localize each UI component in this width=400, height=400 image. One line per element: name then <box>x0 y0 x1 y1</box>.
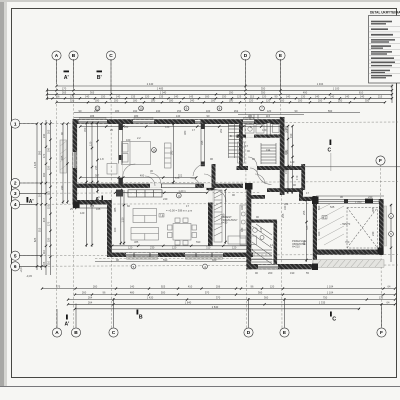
svg-text:1 464: 1 464 <box>317 82 324 86</box>
svg-text:265: 265 <box>62 90 67 94</box>
svg-text:380: 380 <box>183 130 187 135</box>
window sill bottom w1 <box>127 257 158 259</box>
furniture bathroom fixtures <box>238 125 280 164</box>
wall wc small horizontal <box>251 220 277 223</box>
svg-text:120: 120 <box>259 227 263 232</box>
svg-text:160: 160 <box>280 98 285 102</box>
svg-text:525: 525 <box>330 205 335 209</box>
wall interior vertical 1 <box>119 124 136 184</box>
svg-text:120: 120 <box>267 109 272 113</box>
wall vestibule corner <box>299 188 303 201</box>
svg-text:180: 180 <box>229 98 234 102</box>
wall interior vertical 4 (bath) <box>239 124 243 166</box>
wall left exterior <box>73 119 78 204</box>
furniture dining table with chairs <box>168 218 197 245</box>
svg-text:110: 110 <box>42 249 46 254</box>
svg-text:200: 200 <box>298 98 303 102</box>
svg-text:A': A' <box>64 75 69 81</box>
svg-text:240: 240 <box>371 231 375 236</box>
grid bubble 1 left <box>11 119 20 128</box>
window gap top wall 1 <box>79 120 108 123</box>
svg-text:590: 590 <box>163 258 168 262</box>
svg-text:322: 322 <box>178 174 183 178</box>
svg-text:C: C <box>109 53 113 59</box>
left outside chain x63-67 <box>63 124 68 204</box>
svg-text:6: 6 <box>14 264 17 270</box>
svg-text:A: A <box>55 330 59 336</box>
grid dashed vertical line F <box>381 164 382 328</box>
furniture desk room A <box>107 164 117 175</box>
svg-text:170: 170 <box>47 221 51 226</box>
wall interior main horizontal <box>77 184 243 188</box>
door gap interior main 2 <box>204 184 214 188</box>
svg-text:420: 420 <box>212 258 217 262</box>
svg-text:7.8: 7.8 <box>160 213 164 217</box>
right wall dim chains <box>284 125 293 194</box>
wall hall right <box>313 196 317 270</box>
svg-text:365: 365 <box>90 90 95 94</box>
svg-text:B: B <box>72 53 76 59</box>
right side small dimension group <box>389 204 394 262</box>
svg-text:1 040: 1 040 <box>160 90 167 94</box>
svg-text:1.8: 1.8 <box>100 157 104 161</box>
wall interior vertical 3 <box>212 164 216 188</box>
window marker circle 1 <box>95 106 100 111</box>
junction blob separation/kitchen wall <box>207 184 215 191</box>
window gap top wall 2 <box>133 120 154 123</box>
svg-text:264: 264 <box>88 300 93 304</box>
svg-text:200: 200 <box>338 98 343 102</box>
wall step bottom-left <box>73 200 111 205</box>
building outer walls <box>73 117 387 270</box>
door gap interior main 1 <box>150 184 161 188</box>
entry porch marks <box>250 115 258 120</box>
door arc room D2 <box>191 178 201 188</box>
staircase treads entry <box>261 143 276 164</box>
svg-text:103: 103 <box>38 192 42 197</box>
svg-text:130: 130 <box>320 252 325 256</box>
top chain numbers <box>57 82 383 102</box>
wall hall left <box>247 185 252 269</box>
svg-text:170: 170 <box>62 86 67 90</box>
svg-text:590: 590 <box>317 205 321 210</box>
svg-text:1 50: 1 50 <box>120 217 124 223</box>
window gap top wall 3 <box>195 120 201 123</box>
svg-text:365: 365 <box>371 207 375 212</box>
section marker B' top <box>97 71 103 82</box>
svg-text:140: 140 <box>130 285 135 289</box>
svg-text:-0,45: -0,45 <box>26 274 32 278</box>
door arc room C <box>193 164 205 176</box>
svg-text:595: 595 <box>170 150 174 155</box>
svg-text:260: 260 <box>93 285 98 289</box>
door gap bath horizontal <box>246 135 254 138</box>
svg-text:100: 100 <box>248 114 253 118</box>
scanner edge left strip <box>0 0 4 387</box>
svg-text:140: 140 <box>286 94 291 98</box>
title block border <box>369 16 400 84</box>
step wall dim row <box>75 204 109 209</box>
svg-text:262: 262 <box>124 125 129 129</box>
basement stairs hatch in hall <box>252 224 272 264</box>
svg-text:525: 525 <box>305 225 309 230</box>
svg-text:200: 200 <box>114 98 119 102</box>
svg-text:255: 255 <box>302 210 306 215</box>
wall garage top <box>313 199 379 203</box>
svg-text:480: 480 <box>130 291 135 295</box>
svg-text:120: 120 <box>88 141 92 146</box>
grid bubble 6 left <box>11 262 20 271</box>
furniture wc fixtures hall <box>250 228 264 245</box>
inner top mini dimension rows <box>74 113 360 118</box>
garage footing hatched band <box>313 260 384 268</box>
svg-text:190: 190 <box>42 172 46 177</box>
svg-text:194: 194 <box>266 148 271 152</box>
svg-text:115: 115 <box>266 114 271 118</box>
svg-text:1 420: 1 420 <box>147 296 154 300</box>
svg-text:120: 120 <box>232 246 237 250</box>
svg-text:~ 595/70: ~ 595/70 <box>340 222 351 226</box>
svg-text:15: 15 <box>152 148 156 152</box>
svg-text:1 104: 1 104 <box>327 285 334 289</box>
grid bubble 4 left <box>11 200 20 209</box>
staircase treads <box>229 124 241 159</box>
svg-text:240: 240 <box>42 133 46 138</box>
grid dashed horizontal line 1 <box>19 122 398 124</box>
entry canopy line top right <box>238 114 304 116</box>
svg-text:262: 262 <box>234 109 239 113</box>
svg-text:120: 120 <box>262 94 267 98</box>
grid dashed vertical line B <box>73 59 75 328</box>
svg-text:170: 170 <box>42 153 46 158</box>
svg-text:110: 110 <box>47 260 51 265</box>
svg-text:360: 360 <box>258 291 263 295</box>
furniture kitchen counter <box>214 190 247 245</box>
svg-text:500: 500 <box>161 291 166 295</box>
svg-text:120: 120 <box>70 94 75 98</box>
svg-text:120: 120 <box>172 246 177 250</box>
grid dashed vertical line E <box>281 59 283 328</box>
window sill bottom w2 <box>186 257 223 259</box>
svg-text:385: 385 <box>289 164 293 169</box>
svg-text:150: 150 <box>177 109 182 113</box>
window sill top w4 <box>244 117 254 119</box>
window gap top wall 4 <box>243 120 254 123</box>
wall bath partition vertical <box>267 123 270 138</box>
svg-text:120: 120 <box>165 125 170 129</box>
svg-text:560: 560 <box>222 213 226 218</box>
svg-text:B: B <box>230 134 232 138</box>
furniture fireplace <box>116 190 123 197</box>
door arc room B <box>145 176 155 186</box>
corridor door arcs extra <box>150 157 265 184</box>
wall hall internal vertical <box>274 221 278 265</box>
wall vestibule south <box>267 188 301 192</box>
svg-text:140: 140 <box>116 94 121 98</box>
svg-text:206: 206 <box>216 285 221 289</box>
section marker A centre plan <box>95 196 103 204</box>
wall bath horizontal <box>237 135 282 138</box>
door arc bath <box>250 168 258 176</box>
svg-text:A: A <box>55 53 59 59</box>
window marker circle 4 <box>217 106 222 111</box>
svg-text:120: 120 <box>270 285 275 289</box>
svg-text:1 100: 1 100 <box>333 86 340 90</box>
svg-text:140: 140 <box>85 94 90 98</box>
svg-text:150: 150 <box>284 169 288 174</box>
grid bubble A bottom <box>52 328 61 337</box>
svg-text:415: 415 <box>42 217 46 222</box>
grid dashed horizontal line 2 <box>19 182 398 184</box>
svg-text:590: 590 <box>328 109 333 113</box>
svg-text:240: 240 <box>163 197 168 201</box>
svg-text:D: D <box>247 330 251 336</box>
svg-text:140: 140 <box>360 94 365 98</box>
interior vertical mini chains left of rooms <box>87 123 98 247</box>
svg-text:180: 180 <box>240 227 244 232</box>
hollow segment main wall <box>162 184 196 188</box>
junction blob hall top-left <box>245 183 253 190</box>
svg-text:1 104: 1 104 <box>327 291 334 295</box>
interior mini dimension texture rows <box>83 125 362 244</box>
wardrobe room C <box>165 143 172 168</box>
svg-text:C: C <box>332 317 336 323</box>
garage cross brace X <box>347 208 378 249</box>
svg-text:385: 385 <box>113 207 117 212</box>
svg-text:590: 590 <box>196 240 201 244</box>
interior walls <box>77 123 384 270</box>
window sill top w1 <box>80 117 107 119</box>
svg-text:262: 262 <box>284 125 288 130</box>
svg-text:120: 120 <box>128 246 133 250</box>
section marker A' bottom <box>65 315 70 328</box>
svg-text:150: 150 <box>47 165 51 170</box>
svg-text:155: 155 <box>47 204 51 209</box>
grid bubble C bottom <box>109 328 118 337</box>
kitchen note text <box>221 215 238 225</box>
svg-text:150: 150 <box>101 94 106 98</box>
section marker C' right <box>328 140 332 172</box>
svg-text:310: 310 <box>206 246 211 250</box>
grid dashed vertical line D <box>246 59 247 328</box>
svg-text:F: F <box>379 158 382 164</box>
svg-text:350: 350 <box>365 98 370 102</box>
grid bubble B bottom <box>71 328 80 337</box>
svg-text:335: 335 <box>200 140 204 145</box>
svg-text:610: 610 <box>359 90 364 94</box>
svg-text:360: 360 <box>264 296 269 300</box>
svg-text:1 425: 1 425 <box>33 161 37 168</box>
svg-text:133: 133 <box>379 296 384 300</box>
garage eave line <box>316 195 384 197</box>
window marker circle 2 <box>139 106 144 111</box>
svg-text:140: 140 <box>315 94 320 98</box>
svg-text:200: 200 <box>318 98 323 102</box>
top chain ticks <box>46 85 393 104</box>
svg-text:140: 140 <box>176 114 181 118</box>
svg-text:165: 165 <box>47 129 51 134</box>
svg-text:4: 4 <box>14 202 17 208</box>
door gap living/kitchen <box>208 191 213 203</box>
svg-text:160: 160 <box>113 227 117 232</box>
window sill top w2 <box>134 117 153 119</box>
window gap bottom wall 2 <box>185 253 223 257</box>
svg-text:215: 215 <box>378 94 383 98</box>
wall garage right <box>379 199 384 255</box>
grid bubble E bottom <box>280 328 289 337</box>
svg-text:515: 515 <box>38 227 42 232</box>
section marker A' top <box>64 71 70 82</box>
svg-text:120: 120 <box>290 160 295 164</box>
svg-text:180: 180 <box>211 98 216 102</box>
inner dimension row below top wall <box>80 126 284 128</box>
grid dashed horizontal line 5 <box>19 255 398 256</box>
living circle marker 3 <box>176 193 181 198</box>
svg-text:135: 135 <box>159 94 164 98</box>
svg-text:10: 10 <box>139 107 143 111</box>
svg-text:120: 120 <box>266 98 271 102</box>
svg-text:2 440: 2 440 <box>147 82 154 86</box>
scanner edge top strip <box>0 0 400 2</box>
room label box garage <box>322 215 327 219</box>
svg-text:190: 190 <box>133 109 138 113</box>
wall corridor horizontal <box>237 166 306 170</box>
svg-text:190: 190 <box>284 150 288 155</box>
svg-text:165: 165 <box>60 155 64 160</box>
garage right outer strip <box>384 206 387 246</box>
svg-text:1 050: 1 050 <box>355 200 362 204</box>
room circle marker 15 <box>152 148 157 153</box>
svg-text:9.1: 9.1 <box>323 215 327 219</box>
corner column blob <box>73 202 80 209</box>
svg-text:140: 140 <box>345 94 350 98</box>
wall piece south of hall top <box>247 195 266 199</box>
svg-text:590: 590 <box>340 252 345 256</box>
svg-text:A': A' <box>65 322 70 328</box>
svg-text:190: 190 <box>47 147 51 152</box>
svg-text:140: 140 <box>174 94 179 98</box>
svg-text:F: F <box>380 330 383 336</box>
svg-text:130: 130 <box>301 94 306 98</box>
svg-text:105: 105 <box>42 261 46 266</box>
svg-text:180: 180 <box>169 98 174 102</box>
svg-text:1 335: 1 335 <box>319 300 326 304</box>
left chain ticks <box>36 122 52 267</box>
left chain numbers (rotated) <box>33 129 51 266</box>
svg-text:145: 145 <box>189 94 194 98</box>
svg-text:490: 490 <box>303 90 308 94</box>
svg-text:D: D <box>244 53 248 59</box>
svg-text:= +0,00 = 308 m n.p.m: = +0,00 = 308 m n.p.m <box>166 209 192 213</box>
horizontal reference line through F <box>285 166 400 168</box>
svg-text:240: 240 <box>156 109 161 113</box>
grid bubble B top <box>69 51 78 60</box>
junction blob hall bottom-right <box>312 264 318 271</box>
svg-text:410: 410 <box>188 285 193 289</box>
svg-text:595: 595 <box>38 150 42 155</box>
svg-text:320: 320 <box>240 205 244 210</box>
furniture sideboard living top <box>128 190 162 197</box>
svg-text:180: 180 <box>95 98 100 102</box>
grid bubble E top <box>276 51 285 60</box>
bottom chain ticks <box>41 287 396 310</box>
svg-text:255: 255 <box>281 213 285 218</box>
svg-text:190: 190 <box>290 271 295 275</box>
wall interior vertical 2 <box>201 124 205 166</box>
svg-text:180: 180 <box>134 114 139 118</box>
interior horizontal chain under bedrooms <box>79 174 197 179</box>
svg-text:750: 750 <box>323 296 328 300</box>
wall bottom living room inner line <box>107 248 253 250</box>
grid bubble F right <box>376 156 385 165</box>
svg-text:260: 260 <box>82 291 87 295</box>
svg-text:190: 190 <box>289 133 293 138</box>
svg-text:150: 150 <box>222 94 227 98</box>
wall bottom living room sill band <box>107 253 253 258</box>
svg-text:700: 700 <box>345 240 350 244</box>
living top dim line <box>114 189 208 194</box>
svg-text:240: 240 <box>190 98 195 102</box>
window marker circles bottom <box>131 264 136 269</box>
top dimension chain lines <box>47 85 392 104</box>
grid dashed vertical line A <box>56 59 58 328</box>
svg-text:DETAL UKRYTEI/RA: DETAL UKRYTEI/RA <box>370 11 400 15</box>
svg-text:B: B <box>74 330 78 336</box>
grid bubble D bottom <box>244 328 253 337</box>
window gap bottom wall 1 <box>126 253 158 257</box>
window marker circle 5 <box>260 106 265 111</box>
svg-text:210: 210 <box>94 109 99 113</box>
svg-text:264: 264 <box>88 296 93 300</box>
plus-zero mark bottom left <box>19 267 32 278</box>
svg-text:230: 230 <box>150 246 155 250</box>
left dimension chain lines <box>37 120 51 275</box>
furniture sofa set <box>131 209 159 241</box>
svg-text:5: 5 <box>14 253 17 259</box>
grid bubble 5 left <box>11 251 20 260</box>
wall living/kitchen vertical <box>208 189 213 247</box>
wall top exterior <box>73 119 285 124</box>
svg-text:186: 186 <box>90 114 95 118</box>
junction blob garage top-left <box>312 197 319 205</box>
door gap corridor <box>248 166 257 170</box>
svg-text:570: 570 <box>205 291 210 295</box>
grid dashed vertical line C <box>110 59 113 328</box>
svg-text:240: 240 <box>368 195 373 199</box>
svg-text:625: 625 <box>33 237 37 242</box>
inner dimension row above bottom wall <box>112 245 250 247</box>
living left dim chain <box>120 189 126 245</box>
svg-text:1 485: 1 485 <box>157 86 164 90</box>
svg-text:3: 3 <box>14 191 17 197</box>
grid dashed horizontal line 3 <box>19 192 260 195</box>
terrace hatched strip left of building <box>60 140 67 173</box>
grid bubble A top <box>52 51 61 60</box>
window gap hall bottom wall <box>258 265 278 269</box>
svg-text:180: 180 <box>151 98 156 102</box>
svg-text:1 840: 1 840 <box>185 300 192 304</box>
svg-text:200: 200 <box>268 271 273 275</box>
svg-text:140: 140 <box>330 94 335 98</box>
svg-text:400: 400 <box>140 174 145 178</box>
svg-text:350: 350 <box>261 90 266 94</box>
svg-text:100: 100 <box>206 109 211 113</box>
svg-text:115: 115 <box>250 94 255 98</box>
svg-text:150: 150 <box>47 237 51 242</box>
svg-text:370: 370 <box>216 296 221 300</box>
interior vertical chain kitchen <box>222 189 227 244</box>
svg-text:362: 362 <box>284 202 289 206</box>
